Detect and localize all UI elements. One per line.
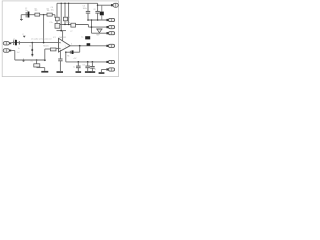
svg-text:Ca: Ca [81, 37, 83, 39]
svg-text:1u: 1u [73, 67, 75, 69]
svg-text:+5V: +5V [73, 58, 77, 60]
svg-text:C2u: C2u [49, 22, 52, 24]
svg-text:wt audio sw keq ratio set: wt audio sw keq ratio set [31, 38, 52, 41]
svg-text:2k2: 2k2 [35, 10, 38, 12]
svg-text:10u: 10u [25, 10, 28, 12]
svg-text:3: 3 [60, 43, 61, 45]
svg-text:C6: C6 [82, 64, 84, 66]
svg-text:C9: C9 [94, 69, 96, 71]
svg-text:IC1: IC1 [53, 37, 56, 39]
svg-text:100n: 100n [83, 8, 87, 10]
svg-text:R5: R5 [67, 55, 69, 57]
svg-text:C8: C8 [93, 9, 95, 11]
svg-text:C7: C7 [70, 31, 72, 33]
svg-text:1: 1 [65, 46, 66, 48]
svg-text:100n: 100n [66, 22, 70, 24]
svg-text:MCLK: MCLK [43, 45, 49, 47]
svg-text:10k: 10k [47, 10, 50, 12]
svg-text:REF: REF [96, 35, 100, 37]
svg-text:10: 10 [68, 17, 70, 19]
svg-text:47u: 47u [13, 39, 16, 41]
svg-text:10u: 10u [51, 9, 54, 11]
svg-text:1u: 1u [60, 22, 62, 24]
svg-text:1k: 1k [29, 45, 31, 47]
svg-text:6: 6 [71, 43, 72, 45]
svg-text:2n2: 2n2 [17, 52, 20, 54]
svg-text:1n: 1n [18, 48, 20, 50]
svg-text:R6: R6 [30, 60, 32, 62]
svg-text:NE5532: NE5532 [59, 37, 66, 39]
